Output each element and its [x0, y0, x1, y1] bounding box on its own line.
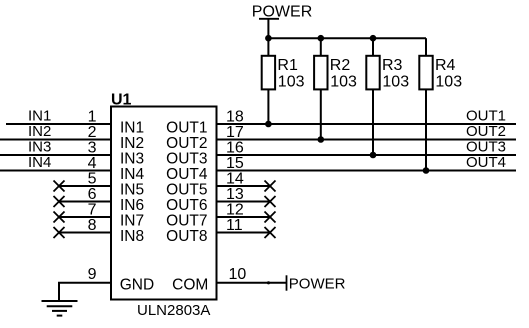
svg-text:IN7: IN7 — [120, 212, 144, 229]
power port POWER (top) — [252, 4, 312, 21]
svg-text:8: 8 — [88, 217, 97, 234]
svg-text:R1: R1 — [277, 57, 298, 74]
svg-text:IN4: IN4 — [28, 154, 51, 171]
svg-text:IN1: IN1 — [120, 119, 144, 136]
svg-text:12: 12 — [226, 201, 244, 218]
svg-text:IN1: IN1 — [28, 107, 51, 124]
no-connect X pin 13 — [265, 196, 276, 207]
svg-text:14: 14 — [226, 170, 244, 187]
no-connect X pin 6 — [54, 196, 65, 207]
svg-text:IN4: IN4 — [120, 166, 145, 183]
svg-text:3: 3 — [88, 139, 97, 156]
junction dot on pin 10 wire — [267, 281, 270, 284]
wire net OUT1 — [217, 123, 517, 125]
junction dot R3/OUT3 — [370, 152, 377, 159]
resistor R2 — [314, 38, 327, 139]
wire net IN2 — [0, 139, 111, 141]
svg-text:103: 103 — [330, 74, 357, 91]
svg-text:OUT7: OUT7 — [166, 212, 207, 229]
svg-text:5: 5 — [88, 170, 97, 187]
svg-text:R4: R4 — [435, 57, 456, 74]
junction dot bus at R1 — [265, 35, 272, 42]
wire net OUT2 — [217, 139, 517, 141]
svg-text:13: 13 — [226, 186, 244, 203]
svg-text:OUT4: OUT4 — [466, 154, 506, 171]
power port POWER (bottom) — [287, 275, 346, 292]
svg-text:OUT3: OUT3 — [166, 150, 207, 167]
resistor R3 — [366, 38, 379, 155]
svg-text:POWER: POWER — [289, 276, 346, 293]
junction dot bus at R2 — [318, 35, 325, 42]
svg-text:OUT5: OUT5 — [166, 181, 207, 198]
svg-text:COM: COM — [172, 277, 208, 294]
no-connect X pin 12 — [265, 212, 276, 223]
no-connect X pin 5 — [54, 181, 65, 192]
wire net IN4 — [0, 170, 111, 172]
svg-text:18: 18 — [226, 108, 244, 125]
junction dot R2/OUT2 — [318, 136, 325, 143]
svg-text:2: 2 — [88, 124, 97, 141]
svg-text:IN5: IN5 — [120, 181, 144, 198]
wire stub pin 5 — [59, 185, 111, 187]
wire stub pin 6 — [59, 201, 111, 203]
wire stub pin 12 — [217, 216, 271, 218]
no-connect X pin 8 — [54, 227, 65, 238]
svg-text:ULN2803A: ULN2803A — [137, 302, 210, 319]
wire stub pin 11 — [217, 232, 271, 234]
wire stub pin 14 — [217, 185, 271, 187]
svg-text:R2: R2 — [330, 57, 351, 74]
wire stub pin 13 — [217, 201, 271, 203]
svg-text:OUT1: OUT1 — [166, 119, 207, 136]
svg-text:OUT6: OUT6 — [166, 197, 207, 214]
wire net IN3 — [0, 154, 111, 156]
no-connect X pin 11 — [265, 227, 276, 238]
svg-text:9: 9 — [88, 266, 97, 283]
svg-text:4: 4 — [88, 155, 97, 172]
svg-text:10: 10 — [229, 266, 247, 283]
svg-text:IN8: IN8 — [120, 228, 144, 245]
svg-text:OUT2: OUT2 — [466, 123, 506, 140]
svg-text:17: 17 — [226, 124, 244, 141]
svg-text:IN3: IN3 — [120, 150, 144, 167]
svg-text:OUT1: OUT1 — [466, 107, 506, 124]
junction dot R1/OUT1 — [265, 121, 272, 128]
svg-text:U1: U1 — [111, 92, 132, 109]
wire pin 10 to POWER port — [217, 282, 287, 284]
svg-text:103: 103 — [435, 74, 462, 91]
wire stub pin 7 — [59, 216, 111, 218]
wire net IN1 — [6, 123, 111, 125]
svg-text:IN3: IN3 — [28, 138, 51, 155]
svg-text:103: 103 — [382, 74, 409, 91]
svg-text:OUT4: OUT4 — [166, 166, 208, 183]
svg-text:6: 6 — [88, 186, 97, 203]
svg-text:OUT2: OUT2 — [166, 135, 207, 152]
svg-text:11: 11 — [226, 217, 243, 234]
svg-text:15: 15 — [226, 155, 244, 172]
svg-text:R3: R3 — [382, 57, 403, 74]
svg-text:IN6: IN6 — [120, 197, 144, 214]
resistor R1 — [262, 38, 275, 124]
wire pin 9 to ground — [59, 283, 111, 301]
svg-text:103: 103 — [278, 74, 305, 91]
wire power bus — [268, 37, 426, 39]
svg-text:OUT3: OUT3 — [466, 138, 506, 155]
wire net OUT3 — [217, 154, 517, 156]
svg-text:GND: GND — [120, 277, 154, 294]
no-connect X pin 14 — [265, 181, 276, 192]
junction dot bus at R3 — [370, 35, 377, 42]
svg-text:OUT8: OUT8 — [166, 228, 207, 245]
op-amp U1 ULN2803A body — [111, 107, 217, 300]
ground symbol — [42, 301, 78, 316]
svg-text:16: 16 — [226, 139, 244, 156]
no-connect X pin 7 — [54, 212, 65, 223]
wire power port to bus — [267, 19, 269, 38]
svg-text:7: 7 — [88, 201, 97, 218]
svg-text:IN2: IN2 — [28, 123, 51, 140]
resistor R4 — [419, 38, 432, 170]
junction dot R4/OUT4 — [423, 167, 430, 174]
wire stub pin 8 — [59, 232, 111, 234]
wire net OUT4 — [217, 170, 517, 172]
svg-text:1: 1 — [88, 108, 97, 125]
svg-text:IN2: IN2 — [120, 135, 144, 152]
